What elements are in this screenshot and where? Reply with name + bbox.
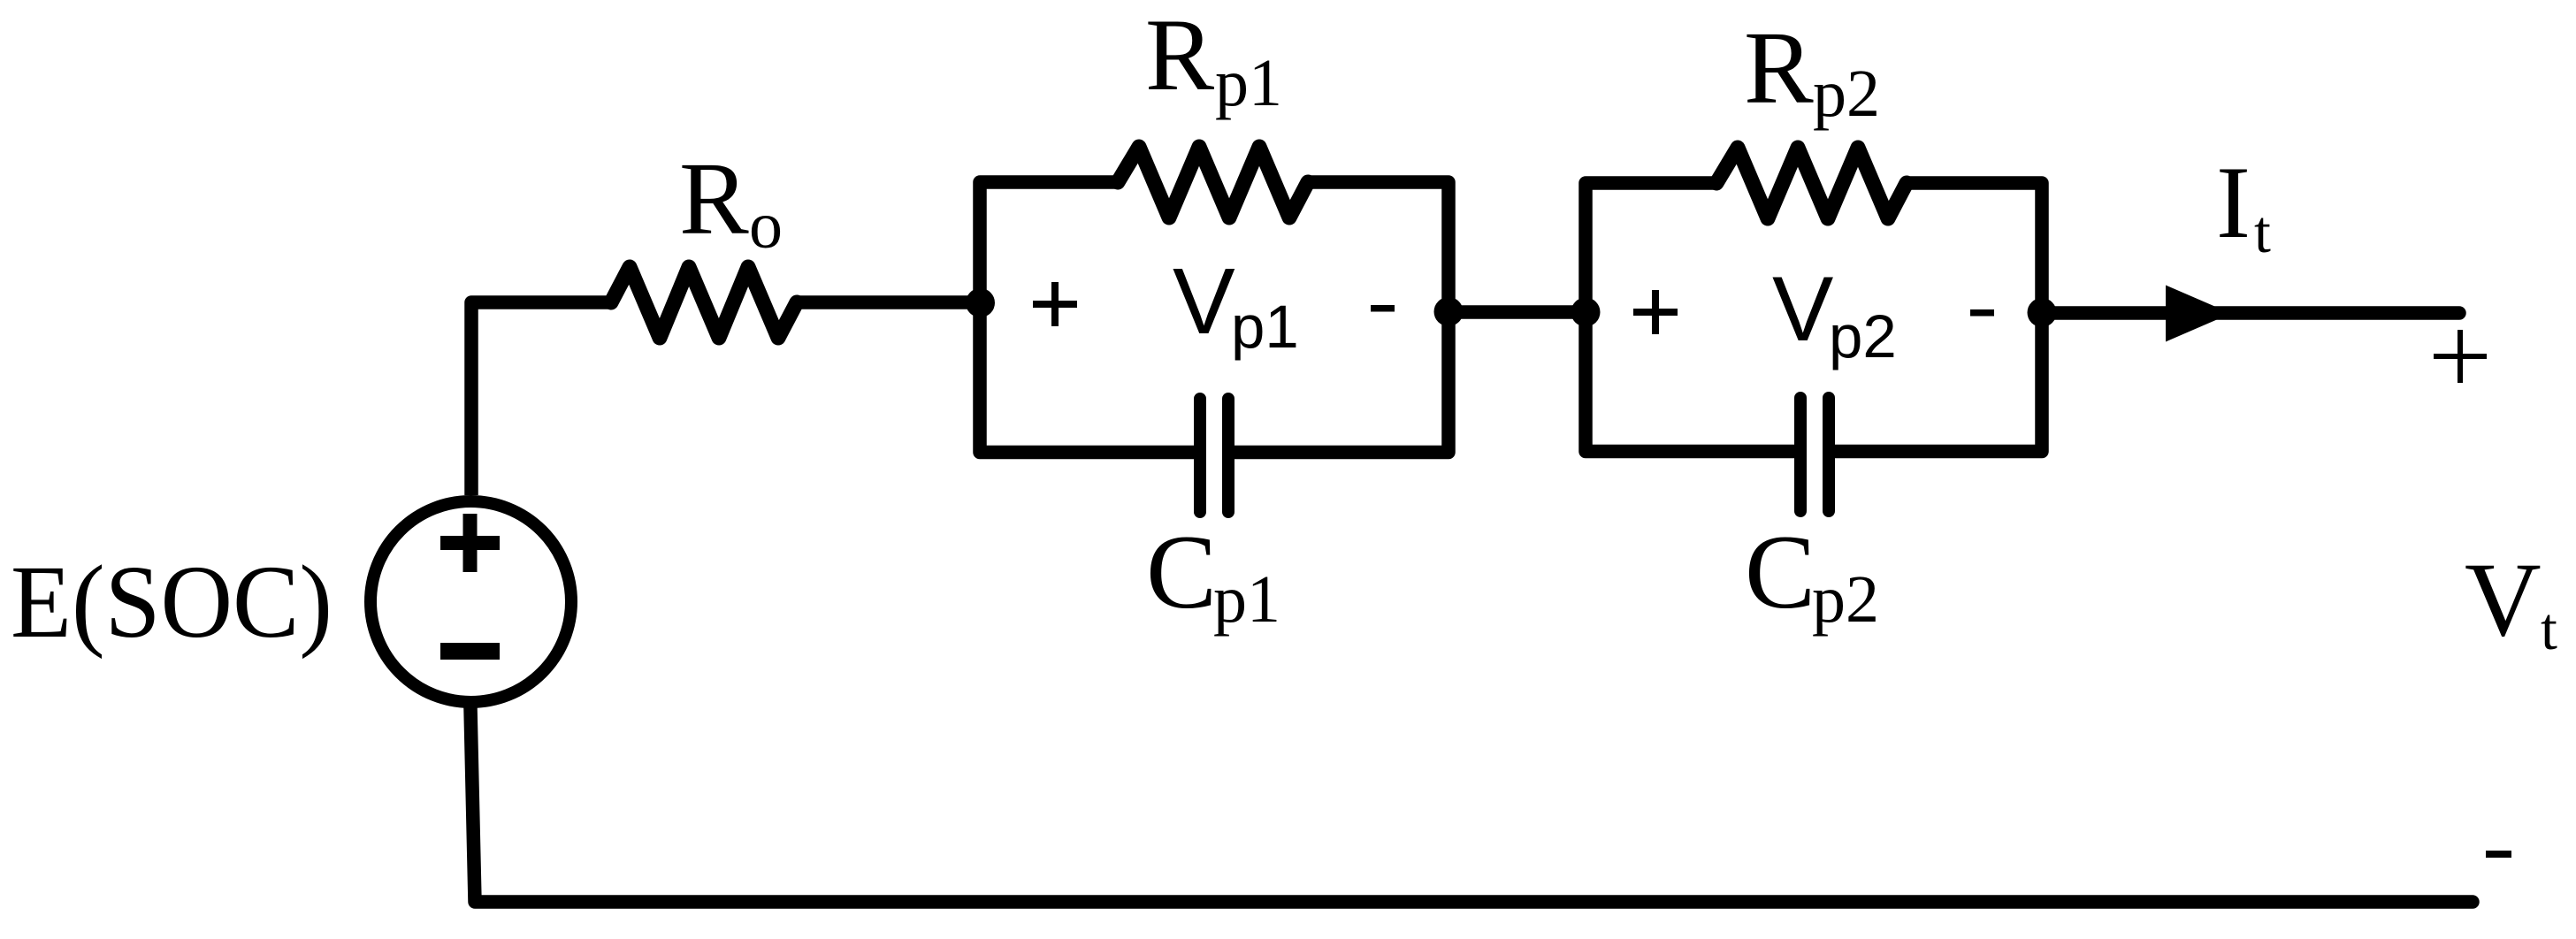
polarity - of Vp2 — [1970, 309, 1994, 317]
svg-text:p1: p1 — [1215, 46, 1282, 120]
label Rp2 — [1744, 10, 1880, 131]
node D (RC2 output junction) — [2028, 298, 2057, 327]
svg-text:p2: p2 — [1829, 302, 1897, 370]
svg-text:p2: p2 — [1812, 562, 1879, 637]
resistor Ro — [611, 267, 797, 338]
node C (RC2 input junction) — [1571, 298, 1601, 327]
svg-text:o: o — [749, 188, 783, 263]
label Vt — [2465, 540, 2557, 662]
svg-text:t: t — [2541, 595, 2557, 662]
label Cp2 — [1745, 513, 1879, 637]
label It — [2216, 146, 2271, 265]
svg-text:I: I — [2216, 146, 2251, 260]
polarity + of Vp1 — [1033, 282, 1077, 326]
voltage source E(SOC) — [371, 501, 571, 702]
svg-text:V: V — [2465, 540, 2542, 658]
wire: node B to node C — [1449, 305, 1586, 319]
svg-text:R: R — [1145, 0, 1214, 112]
label Vp2 — [1772, 258, 1897, 370]
terminal + of Vt — [2434, 330, 2487, 383]
svg-text:R: R — [679, 141, 749, 256]
resistor Rp1 — [1118, 147, 1308, 218]
wire: E(SOC) + terminal riser to top rail — [471, 302, 614, 495]
capacitor Cp2 — [1800, 398, 1829, 511]
polarity - of Vp1 — [1371, 305, 1395, 312]
label Cp1 — [1146, 513, 1280, 637]
svg-text:t: t — [2254, 198, 2271, 265]
label Vp1 — [1173, 249, 1299, 361]
node B (Rp1 / Rp2 junction) — [1434, 297, 1464, 326]
wire: Ro to node A — [797, 295, 980, 309]
svg-text:p2: p2 — [1813, 57, 1880, 131]
svg-text:p1: p1 — [1213, 562, 1280, 637]
label Rp1 — [1145, 0, 1282, 120]
svg-text:p1: p1 — [1231, 293, 1299, 361]
current arrow It — [2166, 286, 2231, 342]
polarity + of Vp2 — [1633, 290, 1678, 334]
svg-text:V: V — [1173, 249, 1235, 354]
RC network 1 frame (Rp1 parallel Cp1) — [980, 182, 1449, 453]
RC network 2 frame (Rp2 parallel Cp2) — [1586, 183, 2042, 452]
svg-text:R: R — [1744, 10, 1814, 126]
svg-text:V: V — [1772, 258, 1833, 361]
terminal - of Vt — [2486, 851, 2511, 858]
label Ro — [679, 141, 783, 263]
capacitor Cp1 — [1200, 399, 1228, 512]
svg-text:C: C — [1745, 513, 1815, 630]
svg-text:C: C — [1146, 513, 1217, 630]
svg-text:E(SOC): E(SOC) — [11, 544, 333, 660]
resistor Rp2 — [1716, 148, 1907, 218]
wire: node D to output terminal — [2042, 306, 2459, 320]
wire: E(SOC) - terminal to bottom rail — [470, 708, 2473, 902]
label E(SOC) — [11, 544, 333, 660]
node A (Ro / Rp1 junction) — [966, 288, 995, 317]
